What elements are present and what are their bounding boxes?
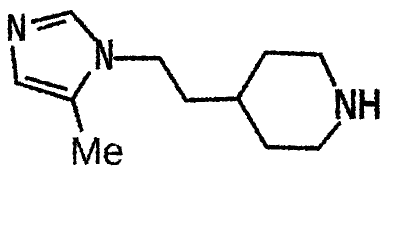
- svg-text:N: N: [7, 7, 27, 50]
- svg-text:NH: NH: [334, 80, 382, 129]
- svg-text:N: N: [94, 31, 114, 80]
- svg-text:Me: Me: [70, 130, 124, 173]
